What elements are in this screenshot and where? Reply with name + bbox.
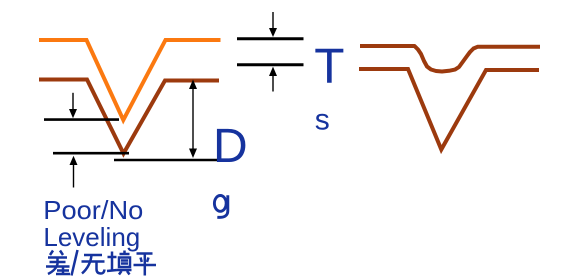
up arrow to datum line 2: [70, 156, 78, 188]
Ts upper measure line: [237, 37, 304, 40]
char 填: [107, 251, 132, 275]
slash: [72, 250, 78, 276]
char 差: [46, 251, 70, 275]
down arrow to datum line 1: [69, 93, 77, 119]
right diagram top profile with shallow dip: [360, 46, 540, 72]
svg-text:Leveling: Leveling: [43, 222, 140, 252]
label g (single-story, drawn): [214, 195, 227, 217]
svg-text:T: T: [314, 39, 344, 94]
down arrow to upper measure line: [269, 12, 277, 37]
up arrow to lower measure line: [269, 67, 277, 92]
char 无: [82, 255, 105, 274]
double-headed arrow Dg: [189, 80, 197, 159]
datum line 2: [53, 152, 129, 155]
Ts lower measure line: [237, 63, 304, 66]
caption chinese 差/无填平 drawn strokes: [46, 250, 156, 276]
brown profile (lower surface, left diagram): [39, 80, 219, 154]
char 平: [134, 254, 157, 276]
svg-text:Poor/No: Poor/No: [43, 195, 143, 225]
right diagram bottom profile deep V: [359, 69, 539, 150]
datum line 1: [44, 118, 119, 121]
datum line 3: [114, 159, 219, 162]
svg-text:D: D: [213, 120, 248, 173]
orange profile (unleveled top surface, left diagram): [39, 40, 221, 120]
svg-text:s: s: [315, 103, 330, 136]
